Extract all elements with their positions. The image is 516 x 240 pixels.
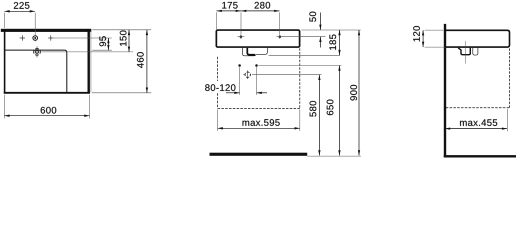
rim line extension (plan) bbox=[92, 49, 112, 51]
dimension 120 extension lines bbox=[425, 29, 444, 31]
dimension 150 text bbox=[120, 31, 127, 46]
wall line (side view) bbox=[444, 24, 446, 158]
dimension 600 extension lines bbox=[3, 95, 5, 119]
water supply connection right (front) bbox=[255, 64, 258, 67]
tap hole (plan) bbox=[33, 36, 38, 41]
dimension 280 text bbox=[255, 2, 271, 9]
alternate tap hole mark right (plan) bbox=[48, 37, 53, 39]
plan view bottom edge bbox=[4, 92, 90, 94]
drain symbol (plan) bbox=[34, 49, 41, 56]
drain centerline (side) bbox=[465, 41, 467, 63]
plan view back edge thick band bbox=[1, 29, 92, 32]
dimension 175 text bbox=[222, 2, 237, 9]
drain trap thick profile (side) bbox=[458, 48, 470, 55]
fixing hole mark left (front) bbox=[239, 35, 242, 38]
dimension 185 text bbox=[329, 34, 336, 49]
dimension 280 line bbox=[241, 10, 280, 12]
dimension max.595 line bbox=[218, 127, 300, 129]
boss bottom extension line bbox=[269, 54, 340, 56]
dimension 600 line bbox=[4, 115, 89, 117]
dimension 600 text bbox=[41, 107, 57, 114]
dimension 50 lines bbox=[319, 13, 321, 30]
dimension 120 text bbox=[413, 26, 420, 41]
floor line (side view) bbox=[444, 155, 516, 157]
waste outlet thick profile (front) bbox=[247, 48, 255, 55]
dimension 225 extension lines bbox=[3, 13, 5, 28]
supply dots extension line bbox=[259, 65, 342, 67]
bottom edge extension line (plan) bbox=[92, 92, 151, 94]
dimension 185 line bbox=[339, 30, 341, 55]
dimension 50 text bbox=[309, 12, 316, 22]
dimension 580 text bbox=[310, 101, 317, 117]
dimension 900 text bbox=[350, 85, 357, 101]
side view body outline bbox=[446, 30, 510, 47]
drain connection crosshair (front) bbox=[245, 72, 250, 77]
dimension max.455 extension line bbox=[506, 109, 508, 131]
dimension 150 line bbox=[128, 30, 130, 52]
dimension 80-120 text bbox=[205, 84, 235, 91]
water supply connection left (front) bbox=[238, 64, 241, 67]
dimension 175/280 extension lines bbox=[216, 12, 218, 29]
alternate tap hole mark left (plan) bbox=[20, 37, 25, 39]
front top edge extension line bbox=[301, 29, 360, 31]
dimension 460 line bbox=[146, 30, 148, 93]
dimension max.455 line bbox=[445, 128, 507, 130]
front view body outline bbox=[216, 30, 299, 47]
drain boss outline (front) bbox=[242, 48, 267, 56]
dimension 650 line bbox=[338, 66, 340, 156]
dimension 900 line bbox=[358, 30, 360, 156]
dimension 95 line bbox=[107, 38, 109, 50]
plan view right edge bbox=[87, 31, 89, 94]
dimension max.595 text bbox=[243, 119, 280, 126]
dimension 80-120 lines bbox=[226, 92, 240, 94]
floor line (thick) bbox=[210, 153, 308, 156]
tap hole line extension (plan) bbox=[54, 37, 112, 39]
plan view left edge bbox=[4, 31, 6, 94]
drain line extension (plan) bbox=[41, 51, 133, 53]
dimension 580 line bbox=[318, 75, 320, 156]
dimension max.595 extension lines bbox=[217, 109, 219, 130]
dimension max.455 text bbox=[460, 119, 497, 126]
plan view basin rim outline bbox=[5, 50, 66, 92]
dimension 460 text bbox=[137, 52, 144, 68]
dimension 175 line bbox=[217, 10, 242, 12]
drain crosshair extension line bbox=[252, 74, 322, 76]
dimension 225 line bbox=[4, 10, 35, 12]
dimension 225 text bbox=[14, 2, 30, 9]
top edge extension line (plan) bbox=[92, 29, 151, 31]
fixing hole mark right (front) bbox=[278, 35, 281, 38]
overflow outlet thin profile (side) bbox=[473, 48, 478, 55]
fixing holes extension line bbox=[282, 36, 325, 38]
dimension 80-120 extension lines bbox=[239, 67, 241, 95]
cabinet clearance dashed box bbox=[217, 57, 219, 81]
clearance dashed lines (side) bbox=[509, 48, 511, 107]
floor line extension (thin) bbox=[307, 155, 361, 157]
dimension 120 line bbox=[422, 30, 424, 47]
dimension 650 text bbox=[327, 100, 334, 116]
dimension 95 text bbox=[99, 36, 106, 46]
